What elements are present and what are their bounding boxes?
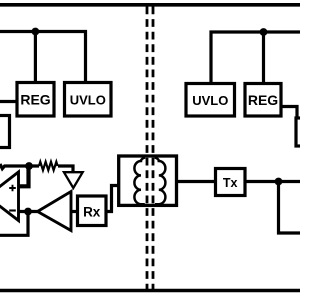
svg-text:REG: REG — [20, 92, 50, 108]
wire Tx output — [245, 180, 300, 183]
wire R1 to clamp — [29, 166, 73, 172]
wire REG2 tap — [262, 32, 265, 84]
svg-text:UVLO: UVLO — [70, 93, 106, 108]
wire -input to bottom-left pin — [0, 212, 28, 236]
wire transformer to Tx — [177, 180, 216, 183]
wire to bottom-right pin — [279, 182, 301, 234]
wire -input — [19, 210, 38, 213]
receiver Rx — [78, 196, 107, 226]
wire REG1 left pin — [0, 100, 17, 103]
pin box (right edge, cut off) — [296, 118, 312, 146]
wire REG1 tap — [34, 32, 37, 84]
transmitter Tx — [216, 169, 246, 196]
wire buffer to Rx — [71, 210, 78, 213]
wire REG2 right pin — [281, 107, 297, 119]
UVLO U2 (left) — [65, 83, 112, 117]
pin box (left edge, cut off) — [0, 116, 10, 148]
node Tx output junction — [275, 178, 283, 186]
regulator REG2 — [245, 84, 281, 117]
isolation barrier — [147, 7, 153, 291]
svg-text:REG: REG — [248, 92, 278, 108]
op-amp A1 — [0, 172, 19, 221]
transformer T1 — [119, 156, 177, 205]
node feedback junction — [25, 162, 33, 170]
clamp triangle (down) — [64, 172, 83, 188]
svg-text:UVLO: UVLO — [192, 93, 228, 108]
svg-text:Tx: Tx — [223, 176, 238, 190]
node VDD2 junction — [260, 28, 268, 36]
node -input junction — [24, 208, 32, 216]
regulator REG1 — [17, 83, 54, 117]
UVLO U4 (right) — [186, 84, 235, 117]
svg-text:Rx: Rx — [83, 204, 101, 219]
wire feedback to +input — [19, 166, 29, 186]
node VDD1 junction — [32, 28, 40, 36]
wire input node — [0, 164, 29, 169]
wire VDD1 supply rail — [0, 32, 86, 84]
buffer A2 — [38, 192, 72, 231]
resistor R1 — [39, 162, 58, 170]
wire Rx to transformer — [106, 186, 119, 212]
wire VDD2 supply rail — [211, 32, 300, 84]
